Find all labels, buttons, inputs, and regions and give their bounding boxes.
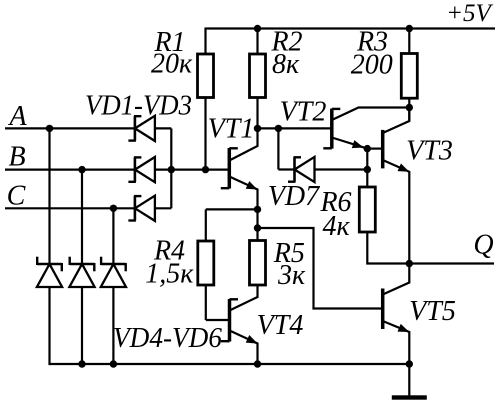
transistor VT4 base bar <box>228 299 232 342</box>
svg-text:1,5к: 1,5к <box>145 259 194 290</box>
junction dot Q node <box>406 260 413 267</box>
resistor R5 <box>250 241 266 286</box>
svg-text:C: C <box>7 181 26 212</box>
transistor VT3 base bar <box>381 130 385 169</box>
VT5 collector <box>383 264 410 295</box>
VT2 bar bottom hook <box>323 147 332 149</box>
wire VD2 anode to VT1 base <box>155 169 230 171</box>
svg-text:200: 200 <box>351 50 393 81</box>
junction dot A <box>46 125 53 132</box>
wire input A <box>5 127 135 129</box>
wire input B <box>5 169 135 171</box>
svg-text:+5V: +5V <box>446 0 493 27</box>
wire node to VT5 base <box>258 228 383 309</box>
wire VD1 to node <box>170 128 172 169</box>
wire node to VT2 base <box>258 127 332 129</box>
wire VD3 anode <box>155 207 172 209</box>
junction dot C <box>110 205 117 212</box>
VT1 bar bottom hook <box>221 187 230 189</box>
VT1 emitter <box>229 177 257 210</box>
wire VT3 base node down <box>366 149 368 188</box>
wire emitter node left <box>206 208 258 210</box>
diode VD7 <box>293 157 296 181</box>
ground <box>392 395 427 399</box>
diode VD1 <box>134 116 137 140</box>
VT2 collector <box>332 108 410 121</box>
resistor R2 <box>250 54 266 98</box>
junction dot R5 node <box>254 224 261 231</box>
VT4 bar bottom hook <box>221 340 230 342</box>
diode VD5 <box>70 263 95 266</box>
svg-text:20к: 20к <box>151 49 193 80</box>
resistor R6 <box>359 187 375 232</box>
svg-text:VD7: VD7 <box>268 181 320 212</box>
svg-text:VD4-VD6: VD4-VD6 <box>113 323 222 354</box>
VT3 emitter <box>383 160 410 264</box>
svg-text:3к: 3к <box>277 260 306 291</box>
VT2 emitter <box>332 138 368 149</box>
svg-text:8к: 8к <box>272 49 300 80</box>
diode VD6 <box>101 263 126 266</box>
junction dot R3-VT2 collector <box>406 104 413 111</box>
VT4 bar top hook <box>230 298 239 300</box>
junction dot rail VT5 <box>406 360 413 367</box>
svg-text:VT4: VT4 <box>257 310 304 341</box>
VT3 emitter arrow <box>398 164 410 172</box>
VT1 emitter arrow <box>246 181 258 189</box>
power rail +5V <box>206 27 496 29</box>
resistor R1 <box>198 54 214 98</box>
wire R4 bottom <box>205 285 207 320</box>
wire to R4 top <box>205 209 207 242</box>
junction dot R1 node <box>202 166 209 173</box>
junction dot B <box>78 166 85 173</box>
wire VT4 base <box>206 319 230 321</box>
junction dot VD7 node <box>364 166 371 173</box>
VT4 collector <box>230 285 258 311</box>
junction dot rail-R3 <box>406 25 413 32</box>
junction dot VD7 top node <box>275 125 282 132</box>
diode VD4 <box>37 263 62 266</box>
wire B drop <box>81 170 83 264</box>
diode VD3 <box>134 196 137 220</box>
ground rail <box>50 363 410 365</box>
junction dot rail VD6 <box>110 360 117 367</box>
junction dot rail-R2 <box>254 25 261 32</box>
junction dot VT3 base <box>364 145 371 152</box>
diode VD2 <box>134 157 137 181</box>
wire output Q <box>409 262 494 264</box>
wire A drop <box>48 128 50 264</box>
wire VD7 cathode <box>278 168 294 170</box>
wire VT3 base <box>367 148 382 150</box>
wire emitter node down <box>256 209 258 241</box>
svg-text:VT3: VT3 <box>406 136 453 167</box>
wire VD3 to node <box>170 170 172 209</box>
VT4 emitter arrow <box>246 335 258 343</box>
wire VD4 anode drop <box>48 287 50 365</box>
VT2 bar top hook <box>332 108 341 110</box>
wire R1 bottom to node <box>204 98 206 170</box>
VT5 emitter arrow <box>398 324 410 332</box>
wire VD1 anode <box>155 127 172 129</box>
wire VD7 up <box>277 128 279 169</box>
VT1 collector <box>229 128 257 160</box>
resistor R3 <box>401 54 417 99</box>
wire VD7 anode <box>315 168 368 170</box>
junction dot VT1-R2 node <box>254 125 261 132</box>
wire VD5 anode drop <box>81 287 83 364</box>
wire R2 bottom to node <box>256 98 258 129</box>
svg-text:Q: Q <box>473 230 493 261</box>
resistor R4 <box>198 241 214 285</box>
wire R3 bottom <box>408 98 410 121</box>
svg-text:4к: 4к <box>322 211 350 242</box>
VT4 emitter <box>230 331 258 365</box>
junction dot VT1 emitter <box>254 206 261 213</box>
VT3 collector <box>383 108 410 134</box>
junction dot rail VT4 <box>254 360 261 367</box>
ground stem <box>408 364 410 396</box>
wire C drop <box>112 208 114 264</box>
wire VD6 anode drop <box>112 287 114 364</box>
VT5 emitter <box>383 321 410 364</box>
junction dot diode common <box>168 166 175 173</box>
svg-text:VT2: VT2 <box>280 97 327 128</box>
VT2 emitter arrow <box>352 140 364 148</box>
svg-text:VT1: VT1 <box>208 114 255 145</box>
svg-text:B: B <box>8 142 25 173</box>
junction dot rail VD5 <box>78 360 85 367</box>
transistor VT1 base bar <box>228 148 232 189</box>
wire R2 top <box>256 29 258 56</box>
wire input C <box>5 207 135 209</box>
transistor VT5 base bar <box>381 289 385 330</box>
svg-text:VT5: VT5 <box>409 296 456 327</box>
VT1 bar top hook <box>229 147 238 149</box>
wire R3 top <box>408 29 410 55</box>
wire R1 top <box>204 28 206 56</box>
transistor VT2 base bar <box>330 109 334 149</box>
wire R6 bottom <box>367 232 409 264</box>
